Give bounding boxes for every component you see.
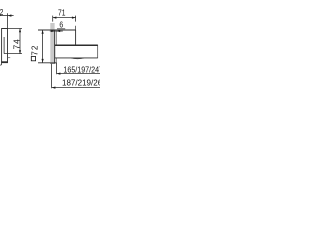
dim1 arrow <box>57 73 61 75</box>
6 right arrow (points left) <box>57 30 61 32</box>
spout bottom edge <box>55 57 98 59</box>
flange thick bottom edge <box>1 61 8 63</box>
svg-text:72: 72 <box>30 45 39 56</box>
74 top arrow <box>19 29 21 33</box>
flange outline (left side view) <box>2 29 8 63</box>
wall section (grey band) <box>50 23 54 64</box>
spout top edge thick <box>55 44 98 46</box>
svg-text:71: 71 <box>58 8 65 18</box>
dim 2 left arrow remnant <box>0 14 2 16</box>
6 left arrow (points right) <box>51 30 55 32</box>
flange inner vertical line <box>3 37 5 54</box>
74 dim line <box>19 29 21 55</box>
wall face line <box>54 30 56 63</box>
71 left extension tick <box>52 16 54 22</box>
flange top extension (74 top) <box>2 28 22 30</box>
square72 dim line <box>42 30 44 63</box>
square72 top arrow <box>42 30 44 34</box>
square72 bottom extension / escutcheon bottom <box>38 62 57 64</box>
dim2 line <box>52 87 100 89</box>
inner horizontal / 74 bottom extension <box>4 53 22 55</box>
dim2 arrow <box>52 87 56 89</box>
6 dim shelf <box>57 28 65 30</box>
74 bottom arrow <box>19 50 21 54</box>
square72 bottom arrow <box>42 59 44 63</box>
dim 2 right arrow (points left) <box>8 14 12 16</box>
dim2 extension tick <box>51 64 53 88</box>
71 dim line <box>53 17 76 19</box>
dim1 line <box>57 73 100 75</box>
background <box>0 0 100 100</box>
dim 2 line <box>0 15 14 17</box>
dim1 extension tick <box>56 63 58 74</box>
square72 top extension + escutcheon/body top edge <box>38 29 76 31</box>
escutcheon front face lower <box>56 58 58 63</box>
svg-text:74: 74 <box>12 38 21 49</box>
body right edge <box>75 30 77 45</box>
escutcheon front face upper <box>56 30 58 45</box>
6 dim arrow line <box>50 30 63 32</box>
svg-text:187/219/269: 187/219/269 <box>62 78 100 87</box>
svg-text:165/197/247: 165/197/247 <box>63 65 100 75</box>
dim 2 extension vertical <box>7 13 9 28</box>
71 right extension <box>75 16 77 22</box>
71 left arrow <box>53 17 57 19</box>
aerator lens bump <box>71 57 84 60</box>
spout underside stub (left view) <box>8 57 11 59</box>
hook bottom-left <box>0 63 1 65</box>
wall band bottom edge <box>50 62 55 64</box>
square symbol of square72 label <box>31 57 35 61</box>
spout tip <box>97 45 99 58</box>
svg-text:6: 6 <box>59 20 63 30</box>
svg-text:12: 12 <box>0 7 3 17</box>
71 right arrow <box>72 17 76 19</box>
